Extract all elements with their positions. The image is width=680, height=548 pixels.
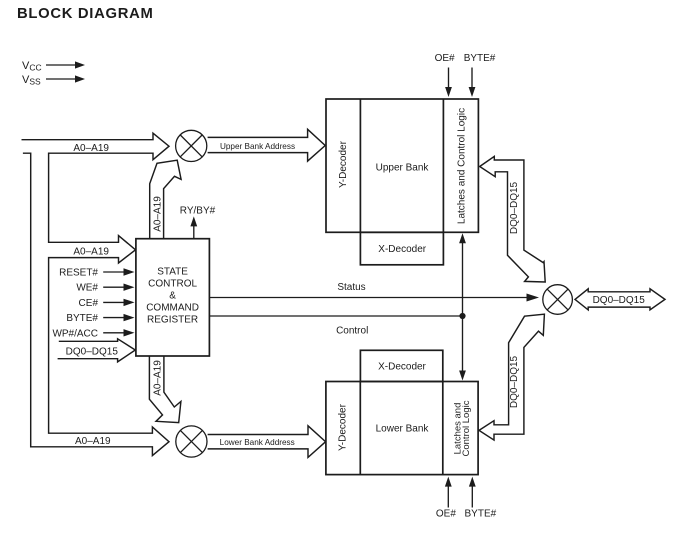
- svg-text:BYTE#: BYTE#: [465, 509, 497, 520]
- svg-text:VSS: VSS: [22, 74, 41, 87]
- svg-text:Latches and Control Logic: Latches and Control Logic: [457, 108, 468, 224]
- svg-text:WE#: WE#: [76, 283, 98, 294]
- svg-text:COMMAND: COMMAND: [146, 303, 199, 314]
- svg-text:BLOCK DIAGRAM: BLOCK DIAGRAM: [17, 6, 154, 22]
- svg-text:Lower Bank Address: Lower Bank Address: [220, 438, 295, 447]
- svg-text:Upper Bank: Upper Bank: [376, 163, 430, 174]
- svg-text:Y-Decoder: Y-Decoder: [338, 403, 349, 451]
- svg-text:A0–A19: A0–A19: [153, 196, 164, 232]
- svg-text:X-Decoder: X-Decoder: [378, 361, 426, 372]
- svg-text:STATE: STATE: [157, 267, 188, 278]
- svg-text:VCC: VCC: [22, 60, 42, 73]
- svg-text:A0–A19: A0–A19: [73, 143, 109, 154]
- svg-text:Status: Status: [337, 282, 365, 293]
- svg-text:Lower Bank: Lower Bank: [376, 424, 430, 435]
- svg-text:Control Logic: Control Logic: [461, 400, 472, 456]
- svg-text:DQ0–DQ15: DQ0–DQ15: [509, 355, 520, 408]
- svg-text:A0–A19: A0–A19: [153, 360, 164, 396]
- svg-text:BYTE#: BYTE#: [464, 53, 496, 64]
- svg-text:WP#/ACC: WP#/ACC: [52, 328, 98, 339]
- svg-text:OE#: OE#: [435, 53, 455, 64]
- svg-text:DQ0–DQ15: DQ0–DQ15: [509, 181, 520, 234]
- svg-text:Y-Decoder: Y-Decoder: [338, 140, 349, 188]
- svg-text:A0–A19: A0–A19: [73, 247, 109, 258]
- svg-text:RY/BY#: RY/BY#: [180, 206, 216, 217]
- svg-text:Control: Control: [336, 326, 368, 337]
- svg-text:BYTE#: BYTE#: [66, 313, 98, 324]
- svg-text:DQ0–DQ15: DQ0–DQ15: [66, 347, 119, 358]
- svg-text:CONTROL: CONTROL: [148, 279, 197, 290]
- svg-text:CE#: CE#: [79, 298, 99, 309]
- svg-text:&: &: [169, 291, 176, 302]
- svg-text:A0–A19: A0–A19: [75, 436, 111, 447]
- svg-text:DQ0–DQ15: DQ0–DQ15: [593, 295, 646, 306]
- svg-text:OE#: OE#: [436, 509, 456, 520]
- svg-text:Upper Bank Address: Upper Bank Address: [220, 142, 295, 151]
- svg-text:REGISTER: REGISTER: [147, 315, 198, 326]
- svg-text:X-Decoder: X-Decoder: [378, 244, 426, 255]
- svg-text:RESET#: RESET#: [59, 268, 98, 279]
